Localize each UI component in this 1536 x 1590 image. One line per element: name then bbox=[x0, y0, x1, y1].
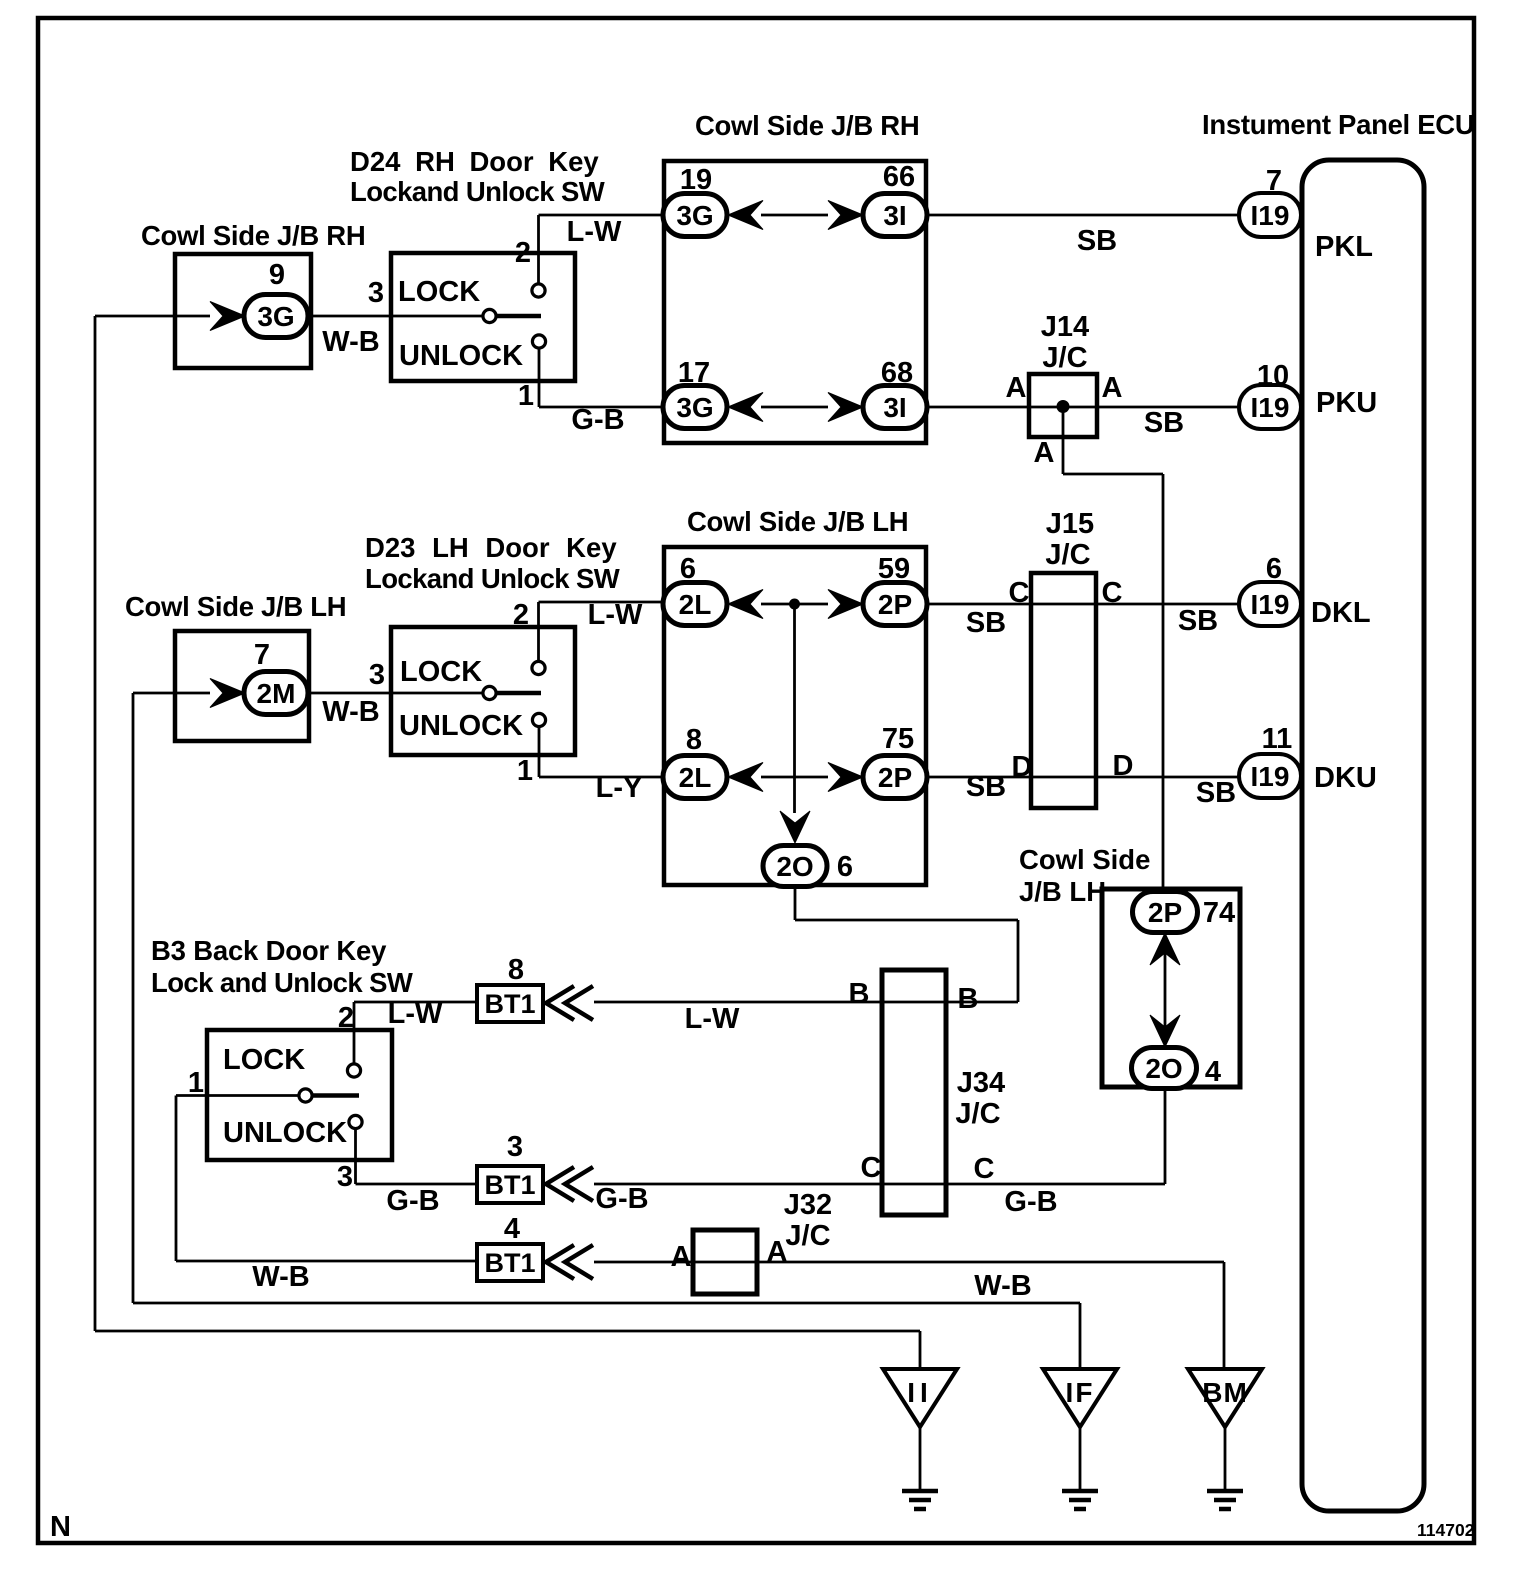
wire inside JB RH row1 bbox=[761, 214, 828, 217]
connector 3G pin 19 bbox=[663, 194, 727, 237]
svg-text:9: 9 bbox=[269, 259, 285, 291]
connector 2P pin 59 bbox=[863, 583, 927, 626]
wire W-B 2M to D23 bbox=[308, 692, 391, 695]
svg-text:UNLOCK: UNLOCK bbox=[399, 710, 523, 742]
junction connector J34 bbox=[882, 970, 946, 1215]
contact UNLOCK (B3) bbox=[349, 1115, 362, 1128]
svg-text:2: 2 bbox=[513, 599, 529, 631]
ground connector IF bbox=[1043, 1369, 1117, 1427]
svg-text:W-B: W-B bbox=[322, 326, 379, 358]
svg-text:Cowl Side J/B RH: Cowl Side J/B RH bbox=[141, 220, 365, 251]
wire L-W D23 pin2 to 2L6 bbox=[539, 601, 665, 604]
svg-text:LOCK: LOCK bbox=[398, 276, 480, 308]
svg-text:B: B bbox=[958, 983, 979, 1015]
wire pin2 B3 to BT1-8 bbox=[354, 1001, 477, 1004]
svg-text:II: II bbox=[907, 1377, 933, 1408]
svg-text:DKL: DKL bbox=[1311, 597, 1371, 629]
wire W-B B3 to BT1-4 bbox=[176, 1260, 477, 1263]
svg-text:4: 4 bbox=[1205, 1056, 1221, 1088]
svg-text:J/B LH: J/B LH bbox=[1019, 876, 1106, 907]
svg-text:1: 1 bbox=[518, 380, 534, 412]
connector I19 pin 7 bbox=[1239, 193, 1301, 237]
svg-text:PKL: PKL bbox=[1315, 231, 1373, 263]
svg-text:I19: I19 bbox=[1251, 761, 1290, 792]
switch B3 back door key lock and unlock bbox=[207, 1030, 392, 1160]
svg-text:A: A bbox=[1102, 372, 1123, 404]
svg-text:J/C: J/C bbox=[785, 1220, 830, 1252]
junction connector J15 bbox=[1031, 573, 1096, 808]
wire 2O4 down to G-B line bbox=[1164, 1089, 1167, 1184]
connector I19 pin 10 bbox=[1239, 385, 1301, 429]
svg-text:SB: SB bbox=[1196, 777, 1236, 809]
contact UNLOCK (D23) bbox=[532, 713, 545, 726]
connector I19 pin 6 bbox=[1239, 582, 1301, 626]
svg-text:D: D bbox=[1012, 751, 1033, 783]
wire L-W D24 pin2 to 3G19 bbox=[539, 214, 665, 217]
connector 2P pin 74 bbox=[1133, 892, 1198, 933]
wire SB 3I68 through J14 to I19 pin10 bbox=[927, 406, 1239, 409]
svg-text:11: 11 bbox=[1262, 723, 1293, 755]
svg-text:1: 1 bbox=[517, 755, 533, 787]
junction block Cowl Side J/B RH (left) bbox=[175, 254, 311, 368]
svg-text:BT1: BT1 bbox=[484, 1248, 535, 1278]
svg-text:3: 3 bbox=[337, 1161, 353, 1193]
ECU body rounded rectangle bbox=[1302, 160, 1424, 1511]
wire W-B BT1-4 through J32 to BM bbox=[594, 1261, 1224, 1264]
wire pin2 D23 up bbox=[537, 602, 540, 661]
connector arrow into 3G pin 9 bbox=[210, 302, 245, 331]
svg-text:7: 7 bbox=[254, 639, 270, 671]
svg-text:J32: J32 bbox=[784, 1189, 832, 1221]
connector BT1 pin 4 bbox=[477, 1244, 543, 1281]
svg-text:SB: SB bbox=[1144, 407, 1184, 439]
svg-text:3I: 3I bbox=[883, 200, 906, 231]
contact LOCK (B3) bbox=[347, 1064, 360, 1077]
svg-text:SB: SB bbox=[966, 771, 1006, 803]
connector 3I pin 66 bbox=[863, 194, 927, 237]
connector 2L pin 8 bbox=[663, 756, 727, 799]
svg-text:3: 3 bbox=[369, 659, 385, 691]
svg-text:3: 3 bbox=[507, 1131, 523, 1163]
connector 3G pin 17 bbox=[663, 386, 727, 429]
svg-text:C: C bbox=[1102, 577, 1123, 609]
svg-text:BT1: BT1 bbox=[484, 989, 535, 1019]
wire inside JB RH row2 bbox=[761, 406, 828, 409]
svg-text:3: 3 bbox=[368, 277, 384, 309]
junction connector J14 bbox=[1029, 374, 1097, 437]
svg-text:I19: I19 bbox=[1251, 392, 1290, 423]
connector chevrons at BT1-4 bbox=[546, 1245, 593, 1279]
wire W-B from node to 3G pin 9 bbox=[95, 315, 210, 318]
svg-text:C: C bbox=[861, 1152, 882, 1184]
connector arrow right at 3I68 bbox=[828, 393, 863, 422]
ground symbol II bbox=[902, 1491, 938, 1509]
svg-text:L-W: L-W bbox=[388, 998, 443, 1030]
svg-text:Lock and Unlock SW: Lock and Unlock SW bbox=[151, 967, 413, 998]
connector BT1 pin 8 bbox=[477, 985, 543, 1022]
svg-text:2O: 2O bbox=[1145, 1053, 1182, 1084]
svg-text:J15: J15 bbox=[1046, 508, 1094, 540]
svg-text:J/C: J/C bbox=[1042, 342, 1087, 374]
wire W-B 3G9 to D24 bbox=[308, 315, 391, 318]
wire BM to ground bbox=[1224, 1427, 1227, 1491]
svg-text:G-B: G-B bbox=[1004, 1186, 1057, 1218]
ground symbol IF bbox=[1062, 1491, 1098, 1509]
wire down to triangle BM bbox=[1223, 1262, 1226, 1369]
svg-text:L-W: L-W bbox=[567, 216, 622, 248]
connector I19 pin 11 bbox=[1239, 754, 1301, 798]
svg-text:W-B: W-B bbox=[252, 1261, 309, 1293]
svg-text:D23 LH Door Key: D23 LH Door Key bbox=[365, 532, 617, 563]
svg-text:3I: 3I bbox=[883, 392, 906, 423]
svg-text:Instument Panel ECU: Instument Panel ECU bbox=[1202, 109, 1474, 140]
svg-text:74: 74 bbox=[1203, 897, 1235, 929]
wire W-B bottom run to II bbox=[95, 1330, 920, 1333]
ground symbol BM bbox=[1207, 1491, 1243, 1509]
svg-text:B3 Back Door Key: B3 Back Door Key bbox=[151, 935, 387, 966]
connector arrow right at 3I66 bbox=[828, 201, 863, 230]
connector BT1 pin 3 bbox=[477, 1166, 543, 1203]
svg-text:2O: 2O bbox=[776, 851, 813, 882]
wire W-B vertical down left side (LH) bbox=[132, 693, 135, 1303]
svg-text:2: 2 bbox=[515, 237, 531, 269]
wire G-B BT1-3 to 2O4 line bbox=[594, 1183, 1165, 1186]
wire into 2O bottom bbox=[794, 887, 797, 920]
connector chevrons at BT1-8 bbox=[546, 986, 593, 1020]
wire from J14 down bbox=[1062, 407, 1065, 475]
svg-text:W-B: W-B bbox=[974, 1270, 1031, 1302]
svg-text:C: C bbox=[974, 1153, 995, 1185]
wire J14 jog right bbox=[1063, 473, 1163, 476]
svg-text:Cowl Side J/B RH: Cowl Side J/B RH bbox=[695, 110, 919, 141]
svg-text:J34: J34 bbox=[957, 1067, 1005, 1099]
svg-text:D24 RH Door Key: D24 RH Door Key bbox=[350, 146, 599, 177]
wire G-B B3 to BT1-3 bbox=[356, 1183, 478, 1186]
svg-text:SB: SB bbox=[1178, 605, 1218, 637]
contact common (D24) bbox=[483, 309, 496, 322]
svg-text:J/C: J/C bbox=[955, 1098, 1000, 1130]
wire W-B vertical down left side (RH) bbox=[94, 316, 97, 1331]
wire down to triangle II bbox=[919, 1331, 922, 1369]
junction connector J32 bbox=[693, 1230, 757, 1294]
svg-text:I19: I19 bbox=[1251, 589, 1290, 620]
switch lever (D23) bbox=[497, 691, 541, 696]
svg-text:3G: 3G bbox=[257, 301, 294, 332]
svg-text:75: 75 bbox=[882, 723, 914, 755]
connector arrow right at 2P75 bbox=[828, 763, 863, 792]
wire junction dot down to 2O bbox=[793, 604, 796, 813]
svg-text:L-W: L-W bbox=[588, 599, 643, 631]
svg-text:IF: IF bbox=[1066, 1377, 1095, 1408]
connector 3G pin 9 bbox=[244, 295, 308, 338]
svg-text:4: 4 bbox=[504, 1213, 520, 1245]
wire W-B bottom run to IF bbox=[133, 1302, 1080, 1305]
wire pin1 B3 down bbox=[175, 1096, 178, 1262]
svg-text:LOCK: LOCK bbox=[223, 1044, 305, 1076]
contact UNLOCK (D24) bbox=[532, 335, 545, 348]
svg-text:A: A bbox=[1006, 372, 1027, 404]
svg-text:BM: BM bbox=[1202, 1377, 1248, 1408]
svg-text:A: A bbox=[767, 1236, 788, 1268]
svg-text:B: B bbox=[849, 978, 870, 1010]
svg-text:W-B: W-B bbox=[322, 696, 379, 728]
connector 3I pin 68 bbox=[863, 386, 927, 429]
svg-text:6: 6 bbox=[837, 851, 853, 883]
svg-text:G-B: G-B bbox=[595, 1183, 648, 1215]
wire SB 3I66 to I19 pin7 bbox=[927, 214, 1239, 217]
wire pin2 B3 up bbox=[353, 1002, 356, 1064]
wire pin1 D23 down bbox=[538, 727, 541, 777]
wire pin2 D24 up bbox=[537, 215, 540, 284]
wire IF to ground bbox=[1079, 1427, 1082, 1491]
connector arrow left at 2L8 bbox=[728, 763, 763, 792]
svg-text:A: A bbox=[671, 1241, 692, 1273]
connector arrow left at 2L6 bbox=[728, 590, 763, 619]
svg-text:2P: 2P bbox=[878, 762, 912, 793]
connector 2O pin 6 bbox=[763, 846, 827, 887]
svg-text:UNLOCK: UNLOCK bbox=[223, 1117, 347, 1149]
svg-text:UNLOCK: UNLOCK bbox=[399, 340, 523, 372]
connector 2P pin 75 bbox=[863, 756, 927, 799]
wire pin3 B3 down bbox=[354, 1129, 357, 1184]
svg-text:2M: 2M bbox=[257, 678, 296, 709]
svg-text:Cowl Side: Cowl Side bbox=[1019, 844, 1150, 875]
wire common into D23 bbox=[391, 692, 484, 695]
junction dot J14 bbox=[1057, 400, 1070, 413]
svg-text:2: 2 bbox=[338, 1002, 354, 1034]
svg-text:3G: 3G bbox=[676, 200, 713, 231]
svg-text:C: C bbox=[1009, 577, 1030, 609]
svg-text:8: 8 bbox=[508, 954, 524, 986]
svg-text:66: 66 bbox=[883, 161, 915, 193]
svg-text:Cowl Side J/B LH: Cowl Side J/B LH bbox=[125, 591, 346, 622]
svg-text:I19: I19 bbox=[1251, 200, 1290, 231]
connector arrow down to 2O4 bbox=[1150, 1015, 1180, 1047]
wire between arrows 2P74-2O4 bbox=[1164, 950, 1167, 1030]
svg-text:8: 8 bbox=[686, 724, 702, 756]
svg-text:L-W: L-W bbox=[685, 1003, 740, 1035]
wire pin1 D24 down bbox=[538, 348, 541, 407]
svg-text:3G: 3G bbox=[676, 392, 713, 423]
wire inside JB LH row1 bbox=[761, 603, 828, 606]
connector arrow down at 2O bbox=[780, 811, 810, 843]
switch D23 LH door key lock and unlock bbox=[391, 627, 575, 755]
junction block Cowl Side J/B LH (right) bbox=[1102, 889, 1240, 1087]
svg-text:2P: 2P bbox=[878, 589, 912, 620]
svg-text:DKU: DKU bbox=[1314, 762, 1377, 794]
connector 2M pin 7 bbox=[244, 672, 308, 715]
ground connector II bbox=[883, 1369, 957, 1427]
ground connector BM bbox=[1188, 1369, 1262, 1427]
junction block Cowl Side J/B RH (center) bbox=[664, 161, 926, 443]
junction block Cowl Side J/B LH (center) bbox=[664, 547, 926, 885]
wire down to triangle IF bbox=[1079, 1303, 1082, 1369]
connector arrow left at 3G17 bbox=[728, 393, 763, 422]
svg-text:G-B: G-B bbox=[386, 1185, 439, 1217]
svg-text:PKU: PKU bbox=[1316, 387, 1377, 419]
svg-text:SB: SB bbox=[966, 607, 1006, 639]
switch lever (D24) bbox=[497, 314, 541, 319]
connector arrow up to 2P74 bbox=[1150, 933, 1180, 965]
svg-text:2L: 2L bbox=[679, 762, 712, 793]
svg-text:J/C: J/C bbox=[1045, 539, 1090, 571]
svg-text:BT1: BT1 bbox=[484, 1170, 535, 1200]
connector arrow left at 3G19 bbox=[728, 201, 763, 230]
svg-text:2L: 2L bbox=[679, 589, 712, 620]
svg-text:114702: 114702 bbox=[1417, 1520, 1475, 1540]
svg-text:D: D bbox=[1113, 750, 1134, 782]
contact common (B3) bbox=[299, 1089, 312, 1102]
svg-text:J14: J14 bbox=[1041, 311, 1089, 343]
wire inside JB LH row2 bbox=[761, 776, 828, 779]
wire vertical to 2P74 bbox=[1162, 474, 1165, 893]
connector 2O pin 4 bbox=[1132, 1048, 1197, 1089]
svg-text:L-Y: L-Y bbox=[596, 772, 643, 804]
svg-text:G-B: G-B bbox=[571, 404, 624, 436]
wire common into D24 bbox=[391, 315, 484, 318]
svg-text:SB: SB bbox=[1077, 225, 1117, 257]
wire common B3 left bbox=[176, 1094, 299, 1097]
svg-text:Lockand Unlock SW: Lockand Unlock SW bbox=[350, 176, 605, 207]
svg-text:Lockand Unlock SW: Lockand Unlock SW bbox=[365, 563, 620, 594]
wire corner up bbox=[1017, 920, 1020, 1002]
svg-text:A: A bbox=[1034, 437, 1055, 469]
contact LOCK (D23) bbox=[532, 661, 545, 674]
connector arrow right at 2P59 bbox=[828, 590, 863, 619]
contact LOCK (D24) bbox=[532, 284, 545, 297]
wire to 2O bbox=[795, 919, 1018, 922]
connector 2L pin 6 bbox=[663, 583, 727, 626]
svg-text:2P: 2P bbox=[1148, 897, 1182, 928]
connector chevrons at BT1-3 bbox=[546, 1167, 593, 1201]
wire W-B from node to 2M bbox=[133, 692, 210, 695]
junction block Cowl Side J/B LH (left) bbox=[175, 631, 309, 741]
wire II to ground bbox=[919, 1427, 922, 1491]
svg-text:Cowl Side J/B LH: Cowl Side J/B LH bbox=[687, 506, 908, 537]
junction dot JB LH bbox=[789, 599, 800, 610]
svg-text:LOCK: LOCK bbox=[400, 656, 482, 688]
wire SB 2P59 to J15 bbox=[927, 603, 1239, 606]
svg-text:N: N bbox=[50, 1511, 71, 1543]
wire SB 2P75 to J15 row2 bbox=[927, 776, 1239, 779]
wire G-B D24 pin1 to 3G17 bbox=[539, 406, 664, 409]
switch D24 RH door key lock and unlock bbox=[391, 253, 575, 381]
wire L-W BT1-8 to corner bbox=[594, 1001, 1018, 1004]
wire L-Y D23 pin1 to 2L8 bbox=[539, 776, 664, 779]
contact common (D23) bbox=[483, 686, 496, 699]
connector arrow into 2M bbox=[210, 679, 245, 708]
switch lever (B3) bbox=[312, 1093, 359, 1098]
